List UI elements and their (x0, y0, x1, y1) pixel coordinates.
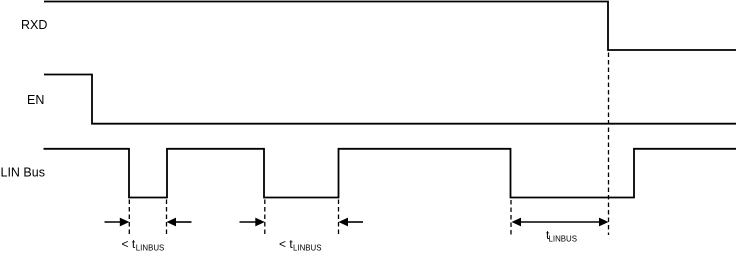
svg-text:LINBUS: LINBUS (293, 243, 322, 253)
svg-text:LINBUS: LINBUS (136, 243, 165, 253)
svg-text:< t: < t (279, 237, 293, 251)
svg-text:RXD: RXD (21, 18, 47, 32)
svg-text:EN: EN (27, 93, 44, 107)
svg-text:< t: < t (122, 237, 136, 251)
svg-text:LINBUS: LINBUS (549, 233, 578, 243)
svg-text:LIN Bus: LIN Bus (1, 166, 45, 180)
